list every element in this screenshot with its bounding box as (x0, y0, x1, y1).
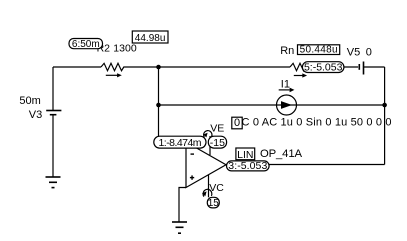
node tag 6:50m (69, 39, 103, 50)
VC value tag 15 (207, 197, 219, 209)
wire right vertical (V5 down to output) (384, 67, 386, 165)
svg-text:Rn: Rn (280, 45, 294, 57)
svg-text:1300: 1300 (113, 43, 137, 55)
voltage source V5 (battery, horizontal) (359, 62, 363, 75)
svg-text:44.98u: 44.98u (135, 33, 166, 44)
svg-text:V5: V5 (347, 47, 360, 59)
junction dot middle-right (382, 103, 387, 108)
node tag 5:-5.053 (302, 62, 344, 74)
value box 50.448u (298, 45, 340, 56)
svg-text:-15: -15 (210, 137, 225, 149)
node tag 3:-5.053 (227, 160, 270, 172)
svg-text:LIN: LIN (237, 149, 253, 161)
wire Rn right lead to V5 battery (315, 66, 359, 68)
wire VE supply stub (209, 136, 211, 155)
junction dot middle-left (156, 103, 161, 108)
ground (op-amp plus input) (172, 222, 187, 233)
svg-text:VC: VC (209, 182, 224, 194)
VE supply jumper symbol (203, 131, 212, 138)
LIN box (236, 148, 255, 161)
svg-text:I1: I1 (281, 79, 290, 91)
wire top-left horizontal from V3 to R2 (53, 66, 101, 68)
svg-text:6:50m: 6:50m (72, 39, 100, 50)
value box 44.98u (132, 31, 168, 44)
svg-text:VE: VE (210, 122, 224, 134)
resistor Rn (290, 63, 315, 70)
svg-text:0: 0 (234, 117, 240, 129)
current source I1 (277, 95, 298, 115)
wire output horizontal to op-amp apex (226, 164, 385, 166)
wire op-amp plus input to ground (179, 188, 186, 222)
wire left vertical V3 branch (52, 67, 54, 110)
resistor R2 current arrow (106, 73, 122, 77)
svg-text:V3: V3 (29, 109, 42, 121)
svg-text:0: 0 (366, 47, 372, 59)
wire V3 bottom to ground (52, 116, 54, 177)
wire R2 right lead to node A (126, 66, 291, 68)
wire V5 to right corner (364, 66, 385, 68)
svg-text:OP_41A: OP_41A (260, 148, 302, 160)
wire VC supply stub (208, 175, 210, 198)
wire middle horizontal through I1 (159, 104, 385, 106)
resistor R2 (101, 63, 126, 70)
svg-text:5:-5.053: 5:-5.053 (304, 62, 343, 74)
svg-text:1:-8.474m: 1:-8.474m (159, 137, 202, 149)
op-amp U1 triangle (186, 142, 226, 188)
svg-text:50m: 50m (19, 95, 40, 107)
node A junction dot (top) (156, 65, 161, 70)
resistor Rn current arrow (294, 73, 307, 77)
svg-text:50.448u: 50.448u (300, 45, 338, 56)
I1 parameter text: node box 0 (232, 117, 242, 129)
voltage source V3 (battery) (46, 111, 61, 115)
I1 label with arrow (279, 79, 295, 93)
ground (V3) (46, 177, 61, 188)
svg-text:3:-5.053: 3:-5.053 (228, 160, 267, 172)
svg-text:15: 15 (208, 198, 220, 209)
wire feedback vertical node A to op-amp minus input (159, 67, 187, 142)
svg-text:C 0 AC 1u 0 Sin 0 1u 50 0 0 0: C 0 AC 1u 0 Sin 0 1u 50 0 0 0 (242, 117, 392, 129)
VC supply jumper symbol (202, 189, 212, 196)
VE value tag -15 (208, 136, 226, 149)
node tag 1:-8.474m (154, 136, 206, 149)
